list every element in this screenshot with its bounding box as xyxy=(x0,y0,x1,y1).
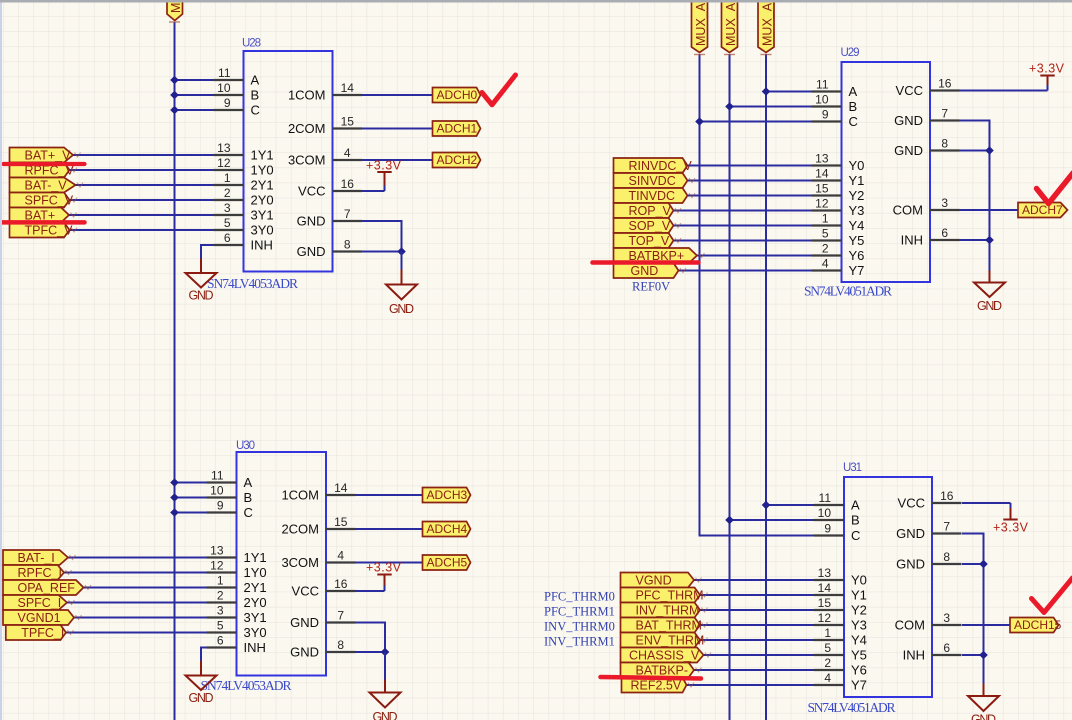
svg-text:3COM: 3COM xyxy=(281,555,319,570)
svg-text:1COM: 1COM xyxy=(288,88,326,103)
svg-text:13: 13 xyxy=(818,566,832,580)
svg-text:10: 10 xyxy=(210,484,224,498)
svg-text:MUX_AD1: MUX_AD1 xyxy=(724,0,738,46)
wire net TOP_V to U29 xyxy=(674,240,812,242)
net label SPFC_V xyxy=(10,193,78,208)
wire net RINVDC_V to U29 xyxy=(688,165,812,167)
ground (U30 GND pins) xyxy=(370,652,401,720)
svg-text:6: 6 xyxy=(217,634,224,648)
U29 pin 3 (COM) xyxy=(893,196,960,218)
svg-text:GND: GND xyxy=(297,214,326,229)
wire net ENV_THRM to U31 xyxy=(700,639,814,641)
annotation check mark at ADCH0 xyxy=(482,75,516,105)
svg-text:A: A xyxy=(244,475,253,490)
wire net BAT+ to U28 xyxy=(69,214,214,216)
svg-text:Y1: Y1 xyxy=(849,173,865,188)
svg-text:VGND: VGND xyxy=(636,574,672,588)
svg-text:Y6: Y6 xyxy=(851,663,867,678)
svg-text:OPA_REF: OPA_REF xyxy=(18,581,76,595)
svg-text:B: B xyxy=(851,513,860,528)
svg-text:VGND1: VGND1 xyxy=(18,611,61,625)
junction xyxy=(170,493,179,502)
svg-text:GND: GND xyxy=(896,526,925,541)
wire U29 A to MUX_AD2 xyxy=(766,91,812,93)
svg-text:15: 15 xyxy=(815,182,829,196)
svg-text:8: 8 xyxy=(344,238,351,252)
U29 pin 1 (Y4) xyxy=(812,212,865,234)
svg-text:ENV_THRM: ENV_THRM xyxy=(636,634,705,648)
wire net ROP_V to U29 xyxy=(674,210,812,212)
U29 pin 6 (INH) xyxy=(901,226,960,248)
wire net REF2.5V to U31 xyxy=(687,684,815,686)
U29 pin 14 (Y1) xyxy=(812,167,865,189)
net label PFC_THRM xyxy=(621,588,708,603)
U30 pin 12 (1Y0) xyxy=(207,559,267,581)
svg-text:BAT-_I: BAT-_I xyxy=(18,551,55,565)
junction xyxy=(397,247,406,256)
svg-text:ADCH3: ADCH3 xyxy=(427,488,468,502)
wire MUX_AD0 bus to U28 (row 80) xyxy=(175,79,214,81)
U28 pin 5 (3Y0) xyxy=(214,216,274,238)
svg-text:10: 10 xyxy=(818,506,832,520)
svg-text:3COM: 3COM xyxy=(288,153,326,168)
wire U28 VCC to +3.3V xyxy=(362,190,385,192)
U28 pin 8 (GND) xyxy=(297,238,362,260)
svg-text:RPFC_I: RPFC_I xyxy=(18,566,62,580)
svg-text:Y7: Y7 xyxy=(849,263,865,278)
svg-text:Y3: Y3 xyxy=(849,203,865,218)
U31 pin 6 (INH) xyxy=(903,641,962,663)
svg-text:Y2: Y2 xyxy=(851,603,867,618)
U30 pin 15 (2COM) xyxy=(281,515,355,537)
wire MUX_AD0 bus to U30 (row 497.5) xyxy=(175,497,207,499)
svg-text:6: 6 xyxy=(943,641,950,655)
svg-text:11: 11 xyxy=(218,66,231,80)
svg-text:INV_THRM0: INV_THRM0 xyxy=(544,620,615,634)
net label CHASSIS_V xyxy=(621,648,712,663)
wire net MUX_AD0 vertical (left, x=174.5) xyxy=(174,22,176,720)
svg-text:9: 9 xyxy=(824,522,831,536)
wire net PFC_THRM to U31 xyxy=(700,594,814,596)
power +3.3V (U29) xyxy=(1029,62,1065,91)
svg-text:GND: GND xyxy=(977,299,1002,313)
svg-text:3Y0: 3Y0 xyxy=(244,625,267,640)
net label BAT_THRM xyxy=(621,618,708,633)
net label ROP_V xyxy=(614,203,682,218)
net label INV_THRM xyxy=(621,603,708,618)
U28 pin 1 (2Y1) xyxy=(214,171,274,193)
svg-text:2: 2 xyxy=(824,656,831,670)
svg-text:2: 2 xyxy=(822,242,829,256)
net label BATBKP+ xyxy=(614,248,705,263)
junction xyxy=(725,102,734,111)
svg-text:2Y0: 2Y0 xyxy=(251,193,274,208)
wire U31 COM to ADCH15 xyxy=(962,624,1010,626)
svg-text:SN74LV4053ADR: SN74LV4053ADR xyxy=(207,276,298,291)
wire U28 2COM to ADCH1 xyxy=(362,128,433,130)
wire MUX_AD0 bus to U28 (row 95) xyxy=(175,94,214,96)
svg-text:4: 4 xyxy=(824,671,831,685)
svg-text:8: 8 xyxy=(941,137,948,151)
U31 pin 1 (Y4) xyxy=(814,626,867,648)
U31 pin 10 (B) xyxy=(814,506,860,528)
net label ENV_THRM xyxy=(621,633,708,648)
wire U29 B to MUX_AD1 xyxy=(730,106,812,108)
net label SOP_V xyxy=(614,218,682,233)
U31 pin 11 (A) xyxy=(814,491,860,513)
vertical net label MUX_AD2 xyxy=(758,0,775,55)
svg-text:3: 3 xyxy=(217,604,224,618)
svg-text:TINVDC: TINVDC xyxy=(629,189,676,203)
wire net BATBKP+ to U29 xyxy=(697,255,812,257)
svg-text:SN74LV4051ADR: SN74LV4051ADR xyxy=(804,284,892,299)
svg-text:GND: GND xyxy=(631,264,659,278)
svg-text:GND: GND xyxy=(189,289,214,303)
U29 pin 7 (GND) xyxy=(894,107,959,129)
wire net SPFC_I to U30 xyxy=(67,602,207,604)
net label REF2.5V xyxy=(622,678,695,693)
svg-text:SPFC_V: SPFC_V xyxy=(25,194,74,208)
U29 pin 11 (A) xyxy=(812,78,858,100)
svg-text:GND: GND xyxy=(297,244,326,259)
U31 pin 13 (Y0) xyxy=(814,566,867,588)
net label BAT+_V xyxy=(10,148,81,163)
svg-text:MUX_AD0: MUX_AD0 xyxy=(694,0,708,46)
port ADCH15 xyxy=(1010,618,1062,633)
svg-text:3: 3 xyxy=(941,196,948,210)
svg-text:SOP_V: SOP_V xyxy=(629,219,671,233)
svg-text:VCC: VCC xyxy=(292,584,319,599)
svg-text:INV_THRM1: INV_THRM1 xyxy=(544,635,615,649)
svg-text:GND: GND xyxy=(389,302,414,316)
svg-text:4: 4 xyxy=(337,549,344,563)
svg-text:B: B xyxy=(251,88,260,103)
svg-text:14: 14 xyxy=(334,481,348,495)
U31 pin 4 (Y7) xyxy=(814,671,867,693)
svg-text:INH: INH xyxy=(903,648,925,663)
ground (U28 GND pins) xyxy=(386,252,417,317)
U30 pin 9 (C) xyxy=(207,499,253,521)
wire U29 GND7/GND8/INH ground bus xyxy=(960,121,990,271)
svg-text:2: 2 xyxy=(224,186,231,200)
net label GND xyxy=(614,263,687,278)
wire net BAT+_V to U28 xyxy=(73,154,214,156)
svg-text:INH: INH xyxy=(901,233,923,248)
net label RINVDC_V xyxy=(614,158,693,173)
svg-text:U28: U28 xyxy=(242,38,261,50)
annotation check mark at ADCH15 xyxy=(1032,578,1072,613)
svg-text:14: 14 xyxy=(815,167,829,181)
U30 pin 6 (INH) xyxy=(207,634,266,656)
svg-text:Y5: Y5 xyxy=(849,233,865,248)
vertical net label MUX_AD1 xyxy=(722,0,739,55)
net label TPFC_I xyxy=(6,625,74,640)
U30 pin 5 (3Y0) xyxy=(207,619,267,641)
svg-text:BAT+_V: BAT+_V xyxy=(25,149,72,163)
wire U28 3COM to ADCH2 xyxy=(362,159,433,161)
svg-text:5: 5 xyxy=(822,227,829,241)
U28 pin 10 (B) xyxy=(214,81,260,103)
svg-text:PFC_THRM: PFC_THRM xyxy=(636,589,704,603)
port ADCH7 xyxy=(1018,203,1068,218)
svg-text:VCC: VCC xyxy=(898,496,925,511)
wire U30 VCC to +3.3V xyxy=(356,590,385,592)
svg-text:+3.3V: +3.3V xyxy=(366,159,402,173)
wire MUX_AD0 bus to U30 (row 512.5) xyxy=(175,512,207,514)
wire U31 B to MUX_AD1 xyxy=(730,519,815,521)
svg-text:INH: INH xyxy=(251,238,273,253)
svg-text:+3.3V: +3.3V xyxy=(993,521,1029,535)
annotation underline BAT+_V xyxy=(4,162,85,166)
svg-text:PFC_THRM0: PFC_THRM0 xyxy=(544,590,615,604)
U30 pin 10 (B) xyxy=(207,484,253,506)
U30 pin 1 (2Y1) xyxy=(207,574,267,596)
mux U30 body xyxy=(201,440,327,693)
svg-text:1: 1 xyxy=(824,626,831,640)
U30 pin 13 (1Y1) xyxy=(207,544,267,566)
net label VGND1 xyxy=(3,610,82,625)
U29 pin 4 (Y7) xyxy=(812,257,865,279)
svg-text:1Y1: 1Y1 xyxy=(244,550,267,565)
wire net RPFC_I to U30 xyxy=(64,572,207,574)
net label BAT-_I xyxy=(3,550,76,565)
wire net MUX_AD1 vertical (x=729.5) xyxy=(729,54,731,720)
svg-text:SINVDC: SINVDC xyxy=(629,174,676,188)
svg-text:REF2.5V: REF2.5V xyxy=(631,679,682,693)
U30 pin 16 (VCC) xyxy=(292,577,356,599)
svg-text:A: A xyxy=(849,84,858,99)
svg-text:3Y1: 3Y1 xyxy=(244,610,267,625)
port ADCH0 xyxy=(433,88,481,103)
svg-text:GND: GND xyxy=(894,113,923,128)
svg-text:BAT_THRM: BAT_THRM xyxy=(636,619,702,633)
svg-text:ADCH4: ADCH4 xyxy=(427,522,468,536)
svg-text:PFC_THRM1: PFC_THRM1 xyxy=(544,605,615,619)
svg-text:RINVDC_V: RINVDC_V xyxy=(629,159,693,173)
ground (U28 INH) xyxy=(186,256,217,303)
wire U29 COM to ADCH7 xyxy=(960,209,1019,211)
svg-text:4: 4 xyxy=(822,257,829,271)
svg-text:+3.3V: +3.3V xyxy=(366,561,402,575)
wire U29 VCC to +3.3V xyxy=(960,90,1048,92)
svg-text:GND: GND xyxy=(896,557,925,572)
net label OPA_REF xyxy=(3,580,91,595)
U30 pin 4 (3COM) xyxy=(281,549,355,571)
wire net BAT-_V to U28 xyxy=(76,184,214,186)
U30 pin 14 (1COM) xyxy=(281,481,355,503)
ground (U29) xyxy=(974,268,1005,313)
junction xyxy=(979,560,988,569)
vertical net label MUX_AD0 (top middle) xyxy=(692,0,709,55)
U28 pin 14 (1COM) xyxy=(288,81,362,103)
svg-text:GND: GND xyxy=(971,713,996,720)
net label RPFC_V xyxy=(10,163,78,178)
wire U28 INH to ground xyxy=(201,245,214,258)
power +3.3V (U31, pointing down) xyxy=(993,503,1029,535)
svg-text:5: 5 xyxy=(224,216,231,230)
wire net GND to U29 xyxy=(679,270,812,272)
svg-text:1COM: 1COM xyxy=(281,488,319,503)
svg-text:Y2: Y2 xyxy=(849,188,865,203)
junction xyxy=(725,516,734,525)
U28 pin 12 (1Y0) xyxy=(214,156,274,178)
U28 pin 11 (A) xyxy=(214,66,260,88)
net label RPFC_I xyxy=(3,565,72,580)
svg-text:16: 16 xyxy=(940,489,954,503)
svg-text:10: 10 xyxy=(815,93,829,107)
junction xyxy=(170,91,179,100)
svg-text:TOP_V: TOP_V xyxy=(629,234,670,248)
svg-text:2COM: 2COM xyxy=(288,121,326,136)
svg-text:MUX_AD2: MUX_AD2 xyxy=(761,0,775,46)
svg-text:C: C xyxy=(251,103,260,118)
svg-text:10: 10 xyxy=(217,81,231,95)
wire U28 GND pins to ground xyxy=(362,221,402,252)
wire net INV_THRM to U31 xyxy=(700,609,814,611)
svg-text:INV_THRM: INV_THRM xyxy=(636,604,700,618)
svg-text:GND: GND xyxy=(290,615,319,630)
svg-text:3Y0: 3Y0 xyxy=(251,223,274,238)
svg-text:Y1: Y1 xyxy=(851,588,867,603)
svg-text:11: 11 xyxy=(819,491,832,505)
U29 pin 9 (C) xyxy=(812,108,858,130)
svg-text:SPFC_I: SPFC_I xyxy=(18,596,62,610)
svg-text:INH: INH xyxy=(244,640,266,655)
svg-text:C: C xyxy=(244,505,253,520)
U28 pin 2 (2Y0) xyxy=(214,186,274,208)
svg-text:16: 16 xyxy=(334,577,348,591)
port ADCH3 xyxy=(423,488,471,503)
svg-text:C: C xyxy=(849,114,858,129)
svg-text:14: 14 xyxy=(818,581,832,595)
junction xyxy=(985,236,994,245)
wire net BAT_THRM to U31 xyxy=(700,624,814,626)
svg-text:7: 7 xyxy=(344,207,351,221)
port ADCH2 xyxy=(433,153,481,168)
svg-text:ADCH0: ADCH0 xyxy=(437,88,478,102)
U29 pin 8 (GND) xyxy=(894,137,959,159)
net label SPFC_I xyxy=(3,595,75,610)
U29 pin 10 (B) xyxy=(812,93,858,115)
U31 pin 12 (Y3) xyxy=(814,611,867,633)
wire MUX_AD0 bus to U28 (row 110) xyxy=(175,109,214,111)
svg-text:4: 4 xyxy=(344,146,351,160)
wire net OPA_REF to U30 xyxy=(84,587,207,589)
svg-text:GND: GND xyxy=(290,645,319,660)
power +3.3V (U30) xyxy=(366,561,402,592)
svg-text:5: 5 xyxy=(217,619,224,633)
svg-text:U30: U30 xyxy=(236,440,255,452)
svg-text:3: 3 xyxy=(943,611,950,625)
U31 pin 2 (Y6) xyxy=(814,656,867,678)
annotation check mark at ADCH7 xyxy=(1037,173,1072,204)
wire net VGND1 to U30 xyxy=(74,617,207,619)
junction xyxy=(762,501,771,510)
svg-text:SN74LV4053ADR: SN74LV4053ADR xyxy=(201,678,292,693)
svg-text:VCC: VCC xyxy=(896,83,923,98)
junction xyxy=(170,478,179,487)
svg-text:1Y0: 1Y0 xyxy=(251,163,274,178)
wire U30 GND pins to ground xyxy=(356,623,386,653)
svg-text:15: 15 xyxy=(341,115,355,129)
U30 pin 7 (GND) xyxy=(290,609,355,631)
svg-text:15: 15 xyxy=(334,515,348,529)
svg-text:A: A xyxy=(251,73,260,88)
window top edge xyxy=(0,0,1072,3)
wire net TPFC_V to U28 xyxy=(70,229,214,231)
U31 pin 16 (VCC) xyxy=(898,489,962,511)
U28 pin 6 (INH) xyxy=(214,231,273,253)
wire U30 3COM to ADCH5 xyxy=(356,562,423,564)
wire net CHASSIS_V to U31 xyxy=(704,654,815,656)
svg-text:CHASSIS_V: CHASSIS_V xyxy=(629,649,700,663)
svg-text:16: 16 xyxy=(341,177,355,191)
svg-text:Y3: Y3 xyxy=(851,618,867,633)
svg-text:B: B xyxy=(244,490,253,505)
svg-text:13: 13 xyxy=(815,152,829,166)
wire U31 A to MUX_AD2 xyxy=(766,504,814,506)
wire net VGND to U31 xyxy=(694,579,814,581)
svg-text:12: 12 xyxy=(217,156,231,170)
svg-text:TPFC_V: TPFC_V xyxy=(25,224,74,238)
svg-text:REF0V: REF0V xyxy=(632,280,670,294)
wire net SINVDC to U29 xyxy=(688,180,812,182)
svg-text:A: A xyxy=(851,498,860,513)
wire net MUX_AD2 vertical (x=766) xyxy=(765,54,767,720)
svg-text:COM: COM xyxy=(895,618,925,633)
U31 pin 8 (GND) xyxy=(896,550,961,572)
net label TINVDC xyxy=(614,188,696,203)
wire U30 2COM to ADCH4 xyxy=(356,528,423,530)
net label TOP_V xyxy=(614,233,682,248)
port ADCH5 xyxy=(423,555,471,570)
U31 pin 15 (Y2) xyxy=(814,596,867,618)
svg-text:6: 6 xyxy=(224,231,231,245)
svg-text:U31: U31 xyxy=(843,462,862,474)
svg-text:TPFC_I: TPFC_I xyxy=(21,626,64,640)
svg-text:VCC: VCC xyxy=(298,184,325,199)
svg-text:1: 1 xyxy=(822,212,829,226)
junction xyxy=(170,508,179,517)
svg-text:U29: U29 xyxy=(841,47,860,59)
svg-text:Y6: Y6 xyxy=(849,248,865,263)
U30 pin 8 (GND) xyxy=(290,638,355,660)
wire net MUX_AD0 vertical (middle, x=699.5) with elbow into U31 pin 9 xyxy=(700,54,815,536)
svg-text:BAT-_V: BAT-_V xyxy=(25,179,68,193)
svg-text:9: 9 xyxy=(224,96,231,110)
wire net BAT-_I to U30 xyxy=(68,557,207,559)
wire U31 GND7/GND8/INH ground bus xyxy=(962,534,984,684)
U29 pin 15 (Y2) xyxy=(812,182,865,204)
net label TPFC_V xyxy=(10,223,78,238)
svg-text:SN74LV4051ADR: SN74LV4051ADR xyxy=(808,700,896,715)
svg-text:2Y1: 2Y1 xyxy=(251,178,274,193)
net label BAT-_V xyxy=(10,178,84,193)
op-amp-mux U28 body xyxy=(207,38,333,292)
svg-text:2Y0: 2Y0 xyxy=(244,595,267,610)
wire net RPFC_V to U28 xyxy=(70,169,214,171)
svg-text:COM: COM xyxy=(893,203,923,218)
annotation underline BATBKP+ xyxy=(593,260,699,265)
U28 pin 7 (GND) xyxy=(297,207,362,229)
U30 pin 11 (A) xyxy=(207,469,253,491)
wire U30 1COM to ADCH3 xyxy=(356,494,423,496)
svg-text:3: 3 xyxy=(224,201,231,215)
svg-text:5: 5 xyxy=(824,641,831,655)
svg-text:B: B xyxy=(849,99,858,114)
wire net SPFC_V to U28 xyxy=(70,199,214,201)
wire net TPFC_I to U30 xyxy=(66,632,207,634)
